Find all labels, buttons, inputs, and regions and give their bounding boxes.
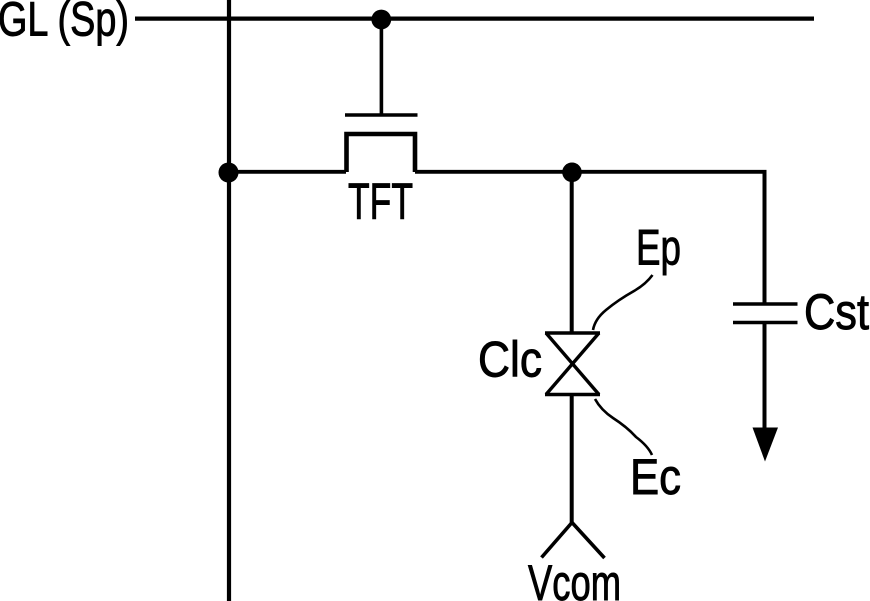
arrowhead Cst ground	[753, 428, 779, 462]
wire below Cst	[763, 323, 767, 433]
wire Clc branch lower	[570, 395, 574, 525]
node dot pixel electrode	[562, 163, 582, 183]
capacitor Clc bowtie bottom edge	[545, 393, 600, 396]
wire source segment	[228, 170, 346, 174]
junction dot on gate line	[371, 10, 391, 30]
svg-text:Clc: Clc	[478, 332, 542, 388]
wire gate line GL	[135, 17, 814, 21]
wire Clc branch upper	[570, 172, 574, 333]
leader line Ec	[595, 399, 652, 455]
Vcom terminal right leg	[572, 523, 605, 559]
leader line Ep	[593, 275, 653, 330]
wire data line (vertical)	[227, 0, 231, 601]
capacitor Clc bowtie diagonal 2	[546, 333, 599, 395]
svg-text:Ep: Ep	[636, 220, 681, 276]
capacitor Clc bowtie top edge	[545, 331, 600, 334]
capacitor Cst top plate	[733, 302, 798, 306]
svg-text:Cst: Cst	[804, 284, 869, 340]
transistor TFT channel	[347, 134, 416, 172]
wire Cst branch vertical	[763, 172, 767, 304]
capacitor Clc bowtie diagonal 1	[546, 333, 599, 395]
junction dot on data line	[219, 163, 239, 183]
svg-text:Ec: Ec	[630, 449, 681, 505]
wire gate stem	[380, 19, 384, 114]
wire drain segment	[415, 170, 767, 174]
svg-text:TFT: TFT	[348, 173, 413, 230]
transistor TFT gate bar	[345, 113, 418, 116]
svg-text:GL (Sp): GL (Sp)	[0, 0, 129, 46]
svg-text:Vcom: Vcom	[528, 555, 621, 601]
capacitor Cst bottom plate	[733, 321, 798, 325]
Vcom terminal left leg	[542, 523, 573, 558]
